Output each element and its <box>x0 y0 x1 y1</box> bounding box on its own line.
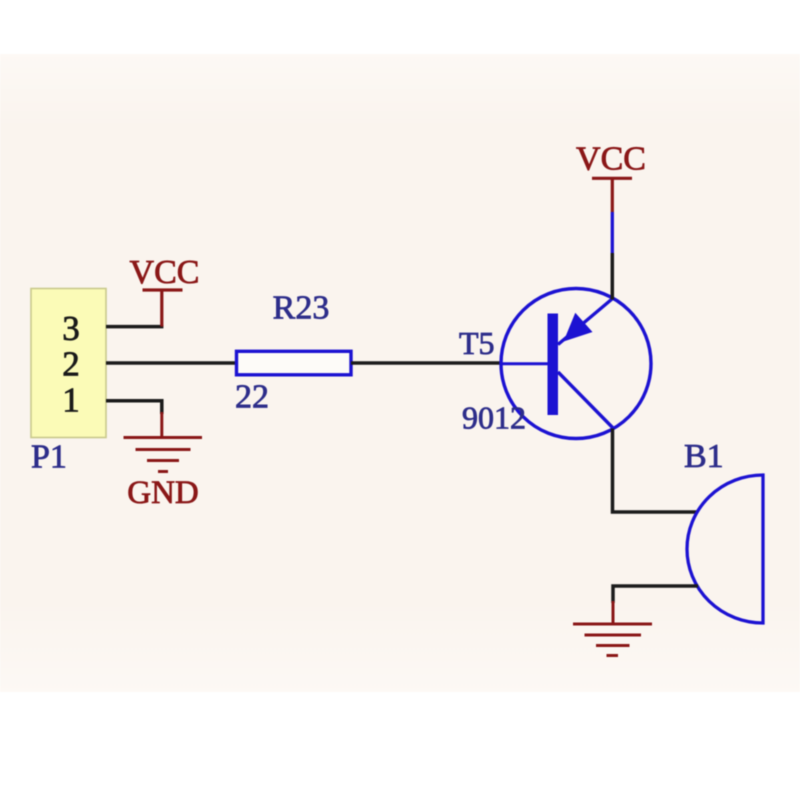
transistor T5 (PNP 9012) <box>500 289 651 439</box>
svg-text:VCC: VCC <box>576 140 646 177</box>
svg-text:R23: R23 <box>273 290 330 327</box>
svg-text:B1: B1 <box>684 438 724 475</box>
buzzer B1 <box>687 475 763 623</box>
svg-text:9012: 9012 <box>462 400 526 436</box>
svg-text:VCC: VCC <box>130 254 200 291</box>
ground GND at P1 <box>124 412 203 472</box>
svg-text:P1: P1 <box>31 439 67 476</box>
power VCC symbol at P1 <box>143 290 183 327</box>
wire pin3 to VCC <box>106 325 163 329</box>
svg-text:GND: GND <box>127 475 199 511</box>
wire pin2 to R23 <box>106 361 237 365</box>
ground at B1 <box>573 601 652 656</box>
svg-text:1: 1 <box>62 381 80 420</box>
svg-text:T5: T5 <box>459 325 495 361</box>
svg-text:2: 2 <box>62 345 80 384</box>
connector P1 <box>31 289 106 438</box>
wire collector to B1 <box>613 429 699 513</box>
svg-text:22: 22 <box>235 379 269 416</box>
wire pin1 to ground <box>106 401 162 414</box>
resistor R23 <box>237 351 352 375</box>
svg-text:3: 3 <box>62 309 80 348</box>
wire B1 to ground <box>613 586 698 603</box>
power VCC at T5 <box>592 178 632 299</box>
wire R23 to T5 base <box>351 361 500 365</box>
